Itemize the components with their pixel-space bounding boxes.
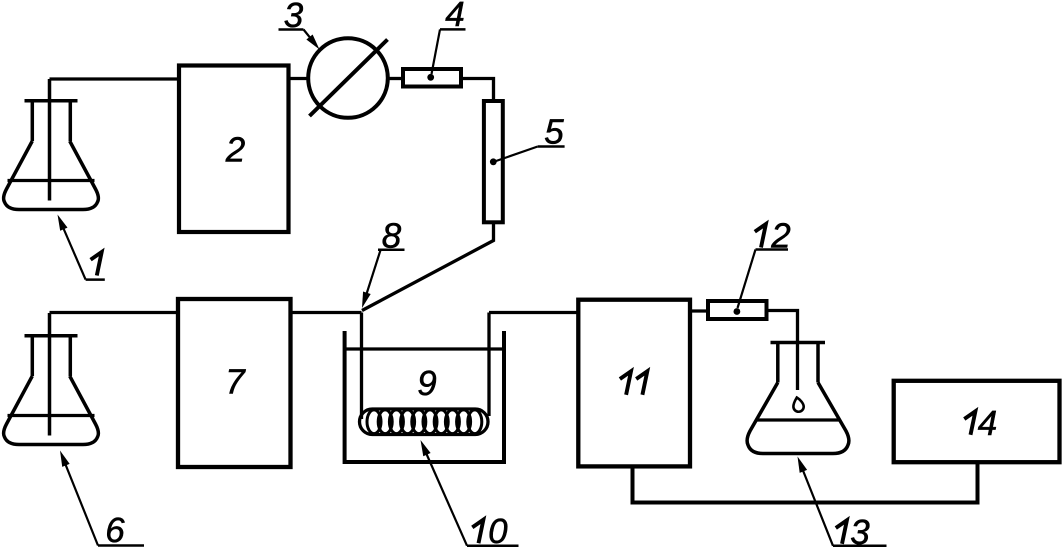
svg-text:9: 9 — [417, 364, 436, 403]
wire W7: unit 7 to node 8 — [291, 311, 362, 314]
callout 13 — [798, 457, 887, 550]
flask 6 — [4, 313, 99, 445]
flask 13 — [747, 343, 849, 454]
callout 5 — [490, 113, 565, 166]
svg-text:2: 2 — [225, 131, 245, 170]
coil 10 — [360, 409, 489, 435]
callout 3 — [279, 0, 320, 50]
wire W12: trap 12 to flask 13 — [767, 311, 798, 391]
column 5 — [484, 101, 503, 222]
callout 10 — [421, 440, 519, 550]
label 14 — [964, 404, 997, 443]
wire W9: coil outlet up — [487, 313, 490, 417]
box 14 — [894, 381, 1060, 462]
wire W10: bath 9 to unit 11 — [489, 311, 578, 314]
flask 1 — [4, 79, 99, 210]
callout 8 — [362, 217, 405, 309]
trap 12 — [708, 301, 767, 319]
wire W5: column 5 to node 8 — [362, 222, 494, 310]
unit 11 — [578, 300, 690, 467]
callout 1 — [58, 215, 105, 280]
filter 4 — [403, 69, 461, 87]
wire W1: flask 1 to unit 2 — [50, 77, 180, 80]
wire W11: unit 11 to trap 12 — [690, 309, 708, 312]
unit 2 — [179, 66, 289, 233]
svg-text:4: 4 — [978, 404, 997, 443]
unit 7 — [178, 299, 291, 467]
wire W8: node 8 down into bath 9 — [360, 313, 363, 420]
label 11 — [620, 371, 647, 395]
wire W2: unit 2 to pump 3 — [289, 77, 311, 80]
svg-text:7: 7 — [225, 363, 246, 402]
callout 6 — [60, 451, 144, 550]
wire W6: flask 6 to unit 7 — [50, 311, 179, 314]
svg-text:0: 0 — [488, 512, 508, 550]
bath 9 — [345, 331, 504, 462]
svg-text:6: 6 — [105, 511, 125, 550]
wire W13: unit 11 to box 14 bottom — [633, 462, 978, 502]
pump 3 — [308, 38, 388, 118]
wire W4: filter 4 to column 5 — [461, 79, 494, 102]
wire W3: pump 3 to filter 4 — [388, 77, 403, 80]
callout 4 — [427, 0, 465, 81]
water level in bath 9 — [346, 347, 503, 350]
callout 12 — [734, 217, 791, 315]
svg-text:3: 3 — [850, 513, 870, 550]
